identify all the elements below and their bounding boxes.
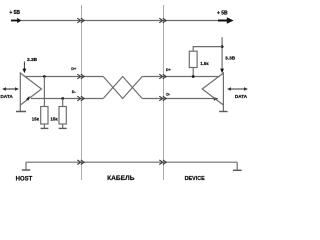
arrow 3.3V into U2 bbox=[220, 69, 224, 74]
svg-text:HOST: HOST bbox=[16, 177, 33, 183]
wire R1 to D+ bbox=[43, 77, 45, 107]
svg-text:+ 5В: + 5В bbox=[217, 11, 228, 17]
svg-text:DEVICE: DEVICE bbox=[185, 176, 205, 182]
resistor R3 1.5k pullup bbox=[189, 51, 197, 67]
node D+ to R1 junction bbox=[43, 75, 46, 78]
wire 3.3V supply device bbox=[221, 37, 223, 70]
svg-text:3.3В: 3.3В bbox=[225, 56, 236, 62]
wire GND rail bbox=[26, 161, 237, 163]
wire +5V rail bbox=[19, 20, 228, 22]
svg-text:1.5к: 1.5к bbox=[200, 61, 209, 66]
resistor R2 15k pulldown bbox=[59, 107, 66, 125]
ground U1 host bbox=[16, 105, 26, 112]
op-amp U2 device transceiver bbox=[202, 73, 223, 105]
svg-text:15к: 15к bbox=[32, 117, 40, 122]
wire R3 bottom to D+ bbox=[192, 68, 194, 77]
wire D+ host segment bbox=[25, 76, 103, 78]
arrow receive direction on U1 lower edge bbox=[26, 96, 30, 101]
chevrons GND at right connector bbox=[159, 160, 166, 165]
svg-text:15к: 15к bbox=[50, 117, 58, 122]
svg-text:DATA: DATA bbox=[235, 94, 248, 99]
svg-text:D+: D+ bbox=[71, 67, 77, 71]
wire R2 to D- bbox=[62, 99, 64, 107]
resistor R1 15k pulldown bbox=[41, 107, 48, 125]
arrow +5V end right bbox=[218, 17, 234, 24]
wire D+ device segment bbox=[142, 76, 219, 78]
wire D- host segment bbox=[31, 98, 103, 100]
chevrons D- at left connector bbox=[77, 96, 84, 101]
connector boundary right (red line) bbox=[163, 5, 165, 180]
svg-text:DATA: DATA bbox=[0, 94, 13, 99]
wire twisted pair D- bbox=[103, 77, 142, 99]
svg-text:D+: D+ bbox=[166, 68, 172, 72]
ground R2 bbox=[59, 124, 67, 128]
wire R3 top to 3.3V bbox=[193, 47, 222, 52]
node 3.3V to R3 junction bbox=[221, 45, 224, 48]
svg-text:+ 5В: + 5В bbox=[9, 10, 20, 16]
ground R1 bbox=[41, 124, 49, 128]
arrow DATA device (bidirectional) bbox=[227, 87, 248, 91]
ground U2 device bbox=[219, 105, 227, 112]
chevrons D+ at left connector bbox=[77, 74, 84, 79]
chevrons D+ at right connector bbox=[159, 74, 166, 79]
op-amp U1 host transceiver bbox=[20, 73, 41, 105]
wire D- device segment bbox=[142, 98, 213, 100]
arrow DATA host (bidirectional) bbox=[2, 87, 19, 91]
connector boundary left (red line) bbox=[81, 5, 83, 180]
svg-text:3.3В: 3.3В bbox=[27, 57, 38, 63]
arrow receive direction into U2 bbox=[213, 97, 218, 101]
ground GND rail right end bbox=[233, 162, 242, 170]
chevrons +5V at left connector bbox=[77, 18, 84, 23]
arrow 3.3V supply into U1 bbox=[23, 62, 27, 74]
svg-text:КАБЕЛЬ: КАБЕЛЬ bbox=[107, 175, 135, 182]
ground GND rail left end bbox=[22, 162, 30, 170]
arrow +5V source left bbox=[11, 18, 21, 23]
chevrons +5V at right connector bbox=[159, 18, 166, 23]
wire twisted pair D+ bbox=[103, 77, 142, 99]
chevrons D- at right connector bbox=[159, 96, 166, 101]
node D- to R2 junction bbox=[61, 97, 64, 100]
chevrons GND at left connector bbox=[77, 160, 84, 165]
node R3 to D+ junction bbox=[192, 75, 195, 78]
